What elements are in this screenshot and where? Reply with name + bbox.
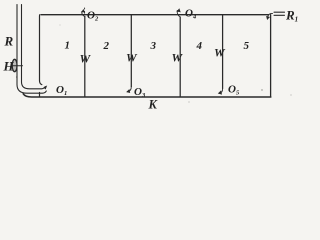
svg-text:1: 1 <box>65 40 71 52</box>
trough box right edge <box>270 15 272 97</box>
arrow hook into trough at top right corner <box>268 13 273 17</box>
trough box top edge <box>41 14 269 16</box>
svg-text:4: 4 <box>196 40 203 52</box>
galvanometer / key H on the tube <box>12 59 17 71</box>
wire tube inner line curving to arrow at O1 <box>22 5 46 89</box>
svg-text:H: H <box>3 59 15 74</box>
svg-text:W: W <box>126 51 138 65</box>
svg-text:3: 3 <box>150 40 157 52</box>
arrowhead pointing to O1 <box>44 86 47 89</box>
svg-text:2: 2 <box>103 40 110 52</box>
wall W3 (between cells 3 and 4, opening at top O4) <box>179 17 181 97</box>
svg-text:W: W <box>80 52 92 66</box>
wall W4 (between cells 4 and 5, opening at bottom O5) <box>222 15 224 89</box>
svg-text:R: R <box>4 34 14 49</box>
svg-text:W: W <box>214 46 226 60</box>
wall W1 (between cells 1 and 2, opening at top O2) <box>84 17 86 97</box>
opening O5 hook at bottom of W4 <box>220 89 223 94</box>
opening O3 hook at bottom of W2 <box>127 87 131 92</box>
opening O4 arrow hook at top of W3 <box>177 11 180 18</box>
trough box bottom edge <box>23 94 271 97</box>
opening O2 arrow hook at top of W1 <box>82 12 85 17</box>
wall W2 (between cells 2 and 3, opening at bottom O3) <box>130 15 132 87</box>
paper speckles <box>16 25 292 103</box>
tube connection to R1 at top right <box>274 12 285 15</box>
trough box left edge lower stub <box>39 93 41 97</box>
paper background <box>0 0 300 114</box>
svg-text:W: W <box>172 51 184 65</box>
svg-text:5: 5 <box>244 40 250 52</box>
trough box left edge (upper part, open at bottom for tube) <box>40 15 42 85</box>
wire tube outer line from R down-left curving to trough bottom <box>17 5 46 94</box>
